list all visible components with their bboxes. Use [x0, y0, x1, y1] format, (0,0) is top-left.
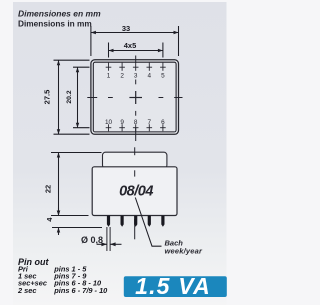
side view pin 3 [134, 216, 137, 227]
bottom pin cross 7 [147, 124, 153, 131]
svg-text:27.5: 27.5 [42, 90, 51, 105]
svg-text:22: 22 [43, 185, 52, 193]
svg-text:Dimensions in mm: Dimensions in mm [18, 19, 92, 29]
top pin cross 3 [133, 63, 139, 71]
pin diameter callout: extension lines [107, 227, 110, 251]
label Bach week/year [165, 239, 204, 256]
top view body inner outline [93, 62, 176, 132]
dimension 4x5: extension lines [109, 43, 163, 58]
dimension 22: extension line bottom [51, 215, 89, 217]
svg-text:1.5 VA: 1.5 VA [135, 273, 211, 299]
top view body outer outline [91, 60, 179, 135]
svg-text:2: 2 [120, 73, 124, 80]
pin diameter callout: arrows [97, 242, 122, 246]
dimension 22: dimension line with arrows [57, 153, 60, 216]
pin out table rows [17, 264, 108, 295]
svg-text:pins 6 - 7/9 - 10: pins 6 - 7/9 - 10 [53, 286, 108, 295]
leader line to date code [135, 198, 161, 247]
top pin cross 4 [147, 63, 153, 71]
bottom pin cross 6 [160, 124, 166, 131]
dimension 33: extension lines [91, 26, 179, 56]
dimension 33: dimension line with arrows [91, 31, 179, 34]
side view pin 5 [161, 216, 164, 227]
top pin cross 2 [119, 63, 125, 71]
side view pin 1 [107, 216, 110, 227]
dimension 27.5: extension lines [54, 60, 90, 134]
svg-text:5: 5 [161, 73, 165, 80]
scanned gray panel [13, 2, 227, 305]
top pin cross 5 [160, 63, 166, 71]
bottom pin numbers 10-6 [105, 119, 165, 126]
top pin numbers 1-5 [107, 73, 165, 80]
svg-text:3: 3 [134, 73, 138, 80]
dimension 22: extension line top [51, 152, 102, 154]
dimension 4: arrows outside [57, 208, 60, 236]
page background [0, 0, 236, 305]
vertical centerline [135, 56, 137, 142]
side view vertical centerline [134, 147, 136, 239]
center mark cross [129, 91, 142, 104]
svg-text:1: 1 [107, 73, 111, 80]
svg-text:33: 33 [122, 24, 130, 33]
dimension 20.2: dimension line with arrows [76, 67, 79, 128]
side view lid [103, 152, 167, 168]
svg-text:week/year: week/year [165, 246, 204, 255]
svg-text:Ø 0,8: Ø 0,8 [81, 235, 103, 245]
bottom pin cross 10 [106, 124, 112, 131]
bottom pin cross 9 [119, 124, 125, 131]
side view body [92, 167, 177, 216]
side view pin 2 [121, 216, 124, 227]
horizontal centerline [87, 97, 182, 99]
dimension 4: extension line (pin tips) [52, 227, 102, 229]
side view pin 4 [148, 216, 151, 227]
dimension 27.5: dimension line with arrows [57, 60, 60, 134]
bottom pin cross 8 [133, 124, 139, 131]
1.5 VA badge [124, 276, 227, 297]
svg-text:Dimensiones en mm: Dimensiones en mm [18, 9, 101, 19]
dimension 4x5: dimension line with arrows [109, 49, 163, 52]
svg-text:08/04: 08/04 [119, 183, 153, 199]
dimension 20.2: extension lines [73, 67, 90, 128]
svg-text:20.2: 20.2 [66, 90, 73, 103]
svg-text:4x5: 4x5 [124, 41, 137, 50]
top pin cross 1 [106, 63, 112, 71]
svg-text:4: 4 [148, 73, 152, 80]
svg-text:2 sec: 2 sec [17, 286, 37, 295]
